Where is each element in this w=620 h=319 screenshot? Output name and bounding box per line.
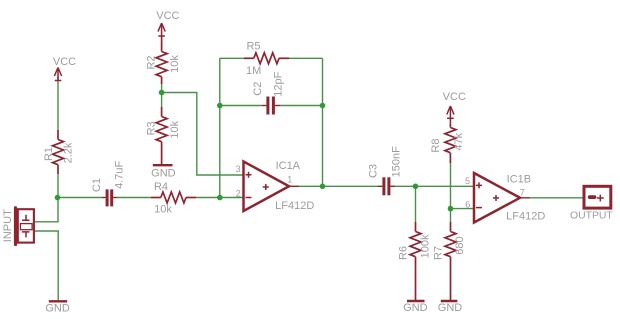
svg-text:R7: R7 bbox=[433, 246, 445, 260]
svg-text:GND: GND bbox=[438, 302, 463, 314]
wire R5 to feedback right vertical bbox=[289, 57, 323, 59]
capacitor C1 4.7uF bbox=[102, 189, 117, 206]
svg-text:12pF: 12pF bbox=[272, 71, 284, 96]
pin 7 stub of IC1B bbox=[519, 197, 530, 199]
resistor R1 2.2k bbox=[53, 130, 64, 174]
wire VCC1 to R1 bbox=[57, 76, 59, 130]
wire IC1B output to OUTPUT pad bbox=[530, 197, 584, 199]
ground GND1 bottom left bbox=[49, 300, 67, 302]
wire C3 to pin 5 of IC1B bbox=[395, 185, 474, 187]
svg-text:100k: 100k bbox=[419, 234, 431, 258]
wire R1 to node IN (signal) bbox=[57, 174, 59, 198]
wire node N2 down to R6 bbox=[415, 186, 417, 222]
wire feedback right vertical bbox=[322, 58, 324, 186]
wire VCC2 to R2 (short) bbox=[161, 36, 163, 42]
svg-text:R6: R6 bbox=[398, 246, 410, 260]
svg-text:C3: C3 bbox=[367, 164, 379, 178]
pin 1 stub of IC1A bbox=[288, 185, 299, 187]
svg-text:10k: 10k bbox=[169, 120, 181, 138]
wire R2 to node BIAS bbox=[161, 84, 163, 93]
svg-text:C1: C1 bbox=[91, 178, 103, 192]
svg-text:R2: R2 bbox=[146, 55, 158, 69]
wire node N3 down to R7 bbox=[450, 209, 452, 222]
ground GND3 under R6 bbox=[407, 300, 425, 302]
resistor R5 1M bbox=[244, 53, 289, 64]
wire feedback left vertical bbox=[219, 58, 221, 197]
node FB-C2-right junction bbox=[320, 103, 326, 109]
svg-text:GND: GND bbox=[45, 302, 70, 314]
wire IC1A output to C3 bbox=[299, 185, 378, 187]
supply VCC3 bbox=[447, 106, 454, 124]
svg-text:680: 680 bbox=[454, 236, 466, 254]
wire C2 to node C2R bbox=[280, 105, 323, 107]
svg-text:R3: R3 bbox=[146, 121, 158, 135]
svg-text:IC1A: IC1A bbox=[276, 160, 301, 172]
connector INPUT jack J1 bbox=[14, 206, 34, 246]
ground GND2 under R3 bbox=[153, 164, 173, 166]
svg-text:7: 7 bbox=[520, 188, 525, 198]
wire node C2L to C2 bbox=[220, 105, 262, 107]
svg-text:R5: R5 bbox=[246, 41, 260, 53]
supply VCC1 bbox=[54, 68, 61, 81]
resistor R2 10k bbox=[156, 42, 167, 84]
svg-text:2: 2 bbox=[236, 188, 241, 198]
svg-text:R8: R8 bbox=[430, 139, 442, 153]
node IN junction bbox=[55, 195, 61, 201]
node BIAS junction bbox=[159, 90, 165, 96]
resistor R4 10k bbox=[151, 192, 196, 203]
svg-text:LF412D: LF412D bbox=[506, 211, 545, 223]
svg-text:C2: C2 bbox=[252, 82, 264, 96]
resistor R7 680 bbox=[445, 222, 456, 300]
svg-text:IC1B: IC1B bbox=[507, 173, 531, 185]
svg-text:5: 5 bbox=[465, 176, 470, 186]
svg-text:150nF: 150nF bbox=[390, 146, 402, 177]
node N3 junction bbox=[448, 206, 454, 212]
svg-text:OUTPUT: OUTPUT bbox=[570, 211, 613, 222]
resistor R3 10k bbox=[156, 107, 167, 164]
svg-text:10k: 10k bbox=[154, 204, 172, 216]
wire node N3 to pin 6 of IC1B bbox=[451, 208, 474, 210]
wire node BIAS to pin 3 of IC1A bbox=[162, 93, 243, 176]
svg-text:1: 1 bbox=[287, 175, 292, 185]
wire R8 to node N3 bbox=[450, 163, 452, 209]
svg-text:GND: GND bbox=[403, 302, 428, 314]
svg-text:10k: 10k bbox=[169, 55, 181, 73]
svg-text:47k: 47k bbox=[453, 132, 465, 150]
wire input jack tip up to node IN bbox=[35, 198, 58, 222]
svg-text:R4: R4 bbox=[154, 181, 168, 193]
svg-text:GND: GND bbox=[151, 168, 176, 180]
resistor R8 47k bbox=[445, 124, 456, 163]
capacitor C3 150nF bbox=[378, 177, 395, 195]
svg-text:VCC: VCC bbox=[156, 10, 179, 22]
capacitor C2 12pF bbox=[262, 97, 280, 115]
svg-text:3: 3 bbox=[235, 164, 240, 174]
wire node BIAS to R3 bbox=[161, 93, 163, 108]
node FB-C2-left junction bbox=[217, 103, 223, 109]
wire C1 to R4 bbox=[117, 197, 151, 199]
svg-text:2.2k: 2.2k bbox=[63, 142, 75, 163]
svg-text:4.7uF: 4.7uF bbox=[113, 160, 125, 188]
resistor R6 100k bbox=[410, 222, 421, 300]
wire node IN to C1 bbox=[58, 197, 102, 199]
svg-text:VCC: VCC bbox=[53, 56, 76, 68]
svg-text:R1: R1 bbox=[43, 147, 55, 161]
svg-text:INPUT: INPUT bbox=[2, 209, 14, 242]
svg-text:VCC: VCC bbox=[443, 91, 466, 103]
connector OUTPUT pad bbox=[584, 186, 611, 208]
op-amp IC1A bbox=[244, 162, 290, 212]
ground GND4 under R7 bbox=[441, 300, 458, 302]
node IC1A-out junction bbox=[320, 184, 326, 190]
svg-text:6: 6 bbox=[465, 199, 470, 209]
svg-text:1M: 1M bbox=[246, 65, 261, 77]
wire input jack sleeve down to GND bbox=[35, 231, 58, 300]
op-amp IC1B bbox=[474, 173, 520, 223]
node pin2 junction bbox=[217, 195, 223, 201]
wire R4 to pin 2 of IC1A bbox=[196, 197, 243, 199]
node N2 junction bbox=[413, 184, 419, 190]
wire feedback top to R5 bbox=[220, 57, 244, 59]
svg-text:LF412D: LF412D bbox=[275, 200, 314, 212]
supply VCC2 bbox=[158, 23, 165, 42]
